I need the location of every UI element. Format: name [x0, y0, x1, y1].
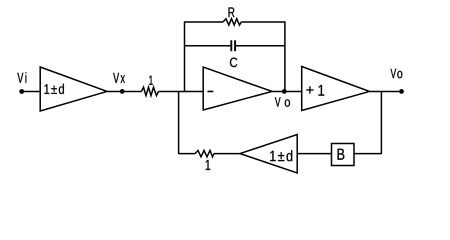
wire resistor R1 to op-amp input node — [159, 90, 204, 92]
node Vi — [17, 72, 26, 94]
wire Vi to amplifier A1 — [22, 90, 40, 92]
resistor R2 value 1 (bottom feedback) — [195, 150, 214, 170]
wire down to bottom feedback path (right) — [380, 91, 382, 154]
amplifier A1 1±d — [40, 67, 107, 111]
wire block B to right vertical — [354, 153, 381, 155]
wire feedback-right vertical — [284, 21, 286, 91]
wire bottom resistor to amplifier A3 apex — [214, 153, 240, 155]
resistor R1 value 1 — [142, 76, 159, 96]
wire A1 apex to node Vx — [107, 90, 142, 92]
wire feedback-left vertical (input node up to RC loop) — [184, 21, 186, 91]
node Vo (final output) — [391, 69, 404, 94]
op-amp U1 — [203, 67, 272, 110]
wire op-amp output to +1 amplifier — [272, 90, 302, 92]
node Vx — [113, 73, 125, 94]
block B — [332, 144, 355, 166]
wire A3 to block B — [297, 153, 331, 155]
wire bottom left segment — [179, 153, 195, 155]
capacitor C feedback — [185, 40, 285, 67]
wire +1 output to node Vo — [370, 90, 402, 92]
wire down to bottom feedback path (left) — [178, 91, 180, 154]
resistor R top feedback — [185, 7, 285, 25]
node Vo (op-amp output) — [275, 89, 290, 107]
amplifier A3 1±d (bottom, pointing left) — [240, 135, 297, 174]
amplifier A2 +1 — [302, 67, 370, 111]
